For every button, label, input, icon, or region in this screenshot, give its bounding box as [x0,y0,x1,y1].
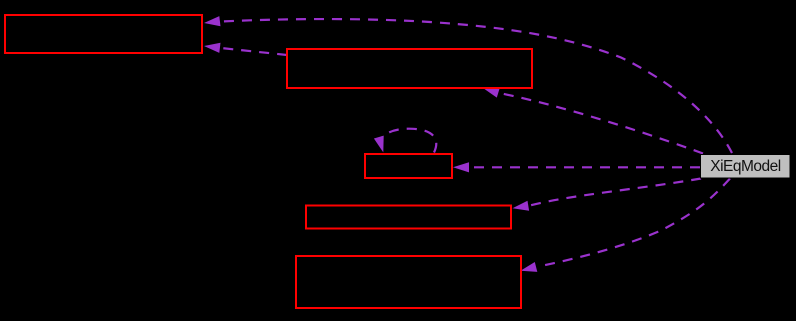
svg-text:XiEqModel: XiEqModel [710,158,781,175]
